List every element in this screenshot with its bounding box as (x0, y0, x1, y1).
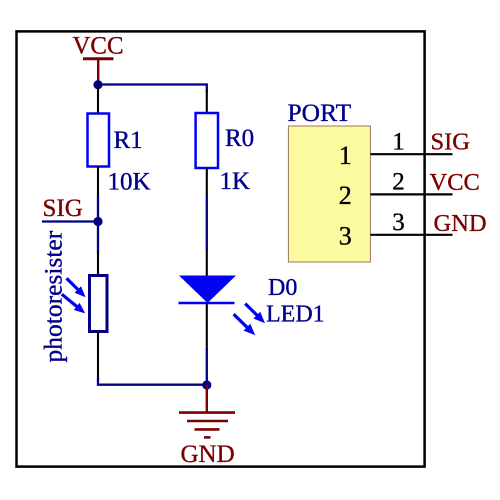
wire top rail VCC node (98, 85, 207, 93)
svg-text:3: 3 (339, 221, 352, 250)
svg-text:SIG: SIG (431, 129, 470, 156)
photoresistor pin 2 (97, 332, 99, 381)
power symbol VCC (83, 59, 114, 84)
LED light arrow 2 (234, 314, 249, 329)
resistor R0 (196, 113, 218, 168)
wire bottom left elbow (98, 378, 207, 385)
svg-text:2: 2 (392, 169, 405, 196)
LED D0 pin anode (206, 249, 208, 276)
svg-text:R1: R1 (114, 127, 143, 154)
node junction SIG (93, 217, 102, 226)
photoresistor light arrow 1 (67, 278, 80, 291)
svg-text:3: 3 (392, 209, 405, 236)
LED D0 triangle (179, 276, 236, 304)
svg-text:R0: R0 (225, 125, 254, 152)
svg-text:SIG: SIG (43, 195, 83, 222)
photoresistor pin 1 (97, 252, 99, 276)
svg-text:GND: GND (434, 210, 487, 237)
node junction GND (202, 380, 211, 389)
wire SIG node down (97, 222, 99, 254)
wire LED to GND node (206, 348, 208, 385)
resistor R1 pin 1 (97, 85, 99, 114)
svg-text:1: 1 (392, 128, 405, 155)
svg-text:VCC: VCC (430, 169, 480, 196)
wire SIG stub (42, 220, 98, 222)
resistor R1 pin 2 (97, 167, 99, 197)
resistor R0 pin 2 (206, 168, 208, 196)
svg-text:10K: 10K (108, 169, 151, 196)
LED light arrow 1 (245, 304, 258, 317)
photoresistor body (90, 276, 108, 332)
svg-text:D0: D0 (268, 275, 297, 301)
LED D0 pin cathode (206, 303, 208, 350)
ground symbol (179, 385, 235, 437)
svg-text:LED1: LED1 (266, 302, 325, 328)
wire R0 to LED (206, 195, 208, 250)
sheet border (17, 31, 425, 466)
PORT pin 3 line (371, 234, 453, 236)
photoresistor light arrow 2 (62, 294, 79, 308)
LED D0 cathode bar (179, 302, 235, 305)
svg-text:PORT: PORT (288, 98, 352, 127)
PORT pin 2 line (371, 193, 453, 195)
resistor R1 (88, 114, 110, 167)
resistor R0 pin 1 (206, 90, 208, 114)
connector PORT body (288, 126, 370, 262)
wire R1 to SIG node (97, 195, 99, 222)
svg-text:1: 1 (339, 141, 352, 170)
svg-text:2: 2 (339, 181, 352, 210)
node junction at VCC rail (93, 80, 102, 89)
svg-text:VCC: VCC (73, 33, 124, 60)
svg-text:GND: GND (181, 441, 235, 468)
PORT pin 1 line (371, 153, 453, 155)
svg-text:1K: 1K (220, 168, 251, 195)
